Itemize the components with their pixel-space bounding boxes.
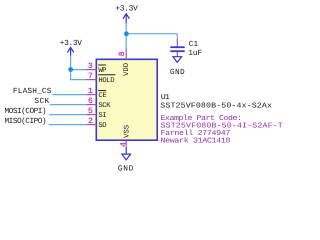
svg-text:5: 5	[88, 107, 93, 116]
svg-text:SI: SI	[98, 112, 106, 120]
svg-text:SO: SO	[98, 122, 106, 130]
pin 5 stub (SI)	[86, 114, 97, 116]
svg-text:1: 1	[88, 87, 93, 96]
junction at top power node	[124, 31, 129, 36]
junction at left power node	[68, 67, 73, 72]
capacitor C1 bottom pin	[176, 52, 178, 57]
svg-text:U1: U1	[161, 94, 170, 102]
svg-text:1uF: 1uF	[188, 49, 202, 58]
pin 8 stub (VDD)	[125, 49, 127, 60]
svg-text:3: 3	[88, 62, 93, 71]
wire SCK to pin 6	[50, 104, 87, 106]
wire from +3.3V top to pin 8	[125, 23, 127, 49]
svg-text:HOLD: HOLD	[98, 77, 114, 85]
wire down to C1	[176, 34, 178, 40]
svg-text:MOSI(COPI): MOSI(COPI)	[5, 107, 47, 116]
svg-text:4: 4	[120, 142, 129, 147]
wire left power vertical	[70, 56, 72, 80]
svg-text:GND: GND	[118, 164, 134, 173]
chip body U1	[96, 59, 157, 140]
svg-text:GND: GND	[170, 68, 185, 77]
pin 6 stub (SCK)	[86, 104, 97, 106]
svg-text:CE: CE	[98, 92, 106, 100]
power symbol +3.3V (top) arrow	[123, 14, 129, 24]
wire to pin 3	[70, 69, 87, 71]
svg-text:FLASH_CS: FLASH_CS	[13, 87, 52, 96]
wire to pin 7	[70, 79, 87, 81]
wire MISO to pin 2	[49, 124, 87, 126]
svg-text:C1: C1	[189, 40, 199, 49]
wire MOSI to pin 5	[49, 114, 86, 116]
svg-text:SST25VF080B-50-4x-S2Ax: SST25VF080B-50-4x-S2Ax	[160, 102, 272, 110]
svg-text:VSS: VSS	[124, 125, 132, 138]
ground symbol below C1	[173, 57, 182, 63]
capacitor C1 plates	[170, 46, 184, 48]
svg-text:8: 8	[118, 51, 127, 56]
wire junction to C1 (horizontal)	[126, 33, 177, 35]
svg-text:SCK: SCK	[34, 97, 49, 106]
svg-text:+3.3V: +3.3V	[115, 5, 138, 14]
pin name CE overbar	[98, 90, 106, 92]
pin 3 stub (WP)	[86, 69, 97, 71]
svg-text:+3.3V: +3.3V	[60, 39, 83, 48]
pin name WP overbar	[98, 64, 106, 66]
svg-text:Newark 31AC1418: Newark 31AC1418	[161, 136, 231, 145]
wire FLASH_CS to pin 1	[52, 94, 86, 96]
pin 4 stub (VSS)	[125, 141, 127, 148]
svg-text:MISO(CIPO): MISO(CIPO)	[5, 117, 47, 126]
pin 7 stub (HOLD)	[86, 79, 97, 81]
svg-text:7: 7	[88, 72, 93, 81]
pin name HOLD overbar	[98, 74, 115, 76]
pin 1 stub (CE)	[86, 94, 97, 96]
svg-text:2: 2	[88, 117, 93, 126]
pin 2 stub (SO)	[86, 124, 97, 126]
svg-text:6: 6	[88, 97, 93, 106]
svg-text:SCK: SCK	[98, 102, 111, 110]
capacitor C1 top pin	[176, 39, 178, 47]
svg-text:WP: WP	[98, 67, 106, 75]
ground symbol below chip	[125, 147, 127, 154]
power symbol +3.3V (left) arrow	[67, 47, 73, 56]
svg-text:VDD: VDD	[123, 63, 131, 76]
